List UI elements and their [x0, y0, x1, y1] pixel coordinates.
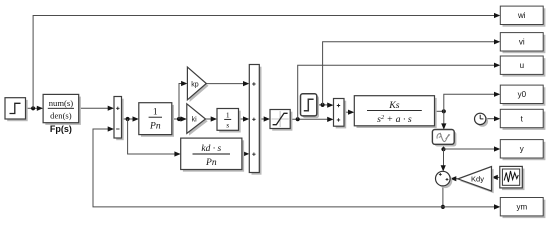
- outport u: [500, 56, 545, 77]
- wire stair source to sum S3 upper input: [317, 103, 334, 108]
- svg-text:1: 1: [153, 108, 158, 118]
- wire step to Fp(s): [26, 106, 44, 111]
- wire 1/Pn output to ki: [172, 116, 187, 121]
- wire to ym output: [443, 204, 500, 209]
- svg-text:s: s: [226, 120, 229, 129]
- svg-text:1: 1: [226, 111, 230, 120]
- sum circle: [436, 171, 453, 188]
- wire Fp(s) to sum S1: [79, 106, 114, 111]
- node after 1/Pn (branch to kp): [177, 117, 181, 121]
- outport y: [500, 140, 545, 161]
- gain kp: [187, 67, 208, 102]
- integrator 1/s: [217, 109, 241, 133]
- svg-text:Pn: Pn: [205, 158, 217, 168]
- outport wi: [500, 6, 545, 27]
- svg-text:wi: wi: [517, 11, 526, 20]
- svg-text:num(s): num(s): [49, 98, 73, 108]
- outport vi: [500, 33, 545, 54]
- derivative-like block (squiggle icon): [432, 130, 456, 147]
- sum S2: [249, 65, 261, 175]
- wire clock to t output: [486, 116, 501, 121]
- svg-text:Kdy: Kdy: [471, 175, 484, 184]
- node plant output: [442, 109, 446, 113]
- svg-text:ki: ki: [192, 117, 198, 124]
- wire to y output: [444, 146, 501, 151]
- wire ki to integrator 1/s: [206, 116, 218, 121]
- sum S1: [114, 97, 124, 141]
- wire sum S3 to plant: [344, 110, 354, 115]
- node after step (branch to wi): [31, 106, 35, 110]
- gain block 1/Pn: [139, 103, 174, 137]
- svg-text:Fp(s): Fp(s): [50, 124, 72, 134]
- svg-text:y0: y0: [518, 90, 527, 99]
- stair source block: [301, 94, 320, 118]
- svg-text:y: y: [520, 145, 524, 154]
- step source block: [5, 98, 28, 122]
- wire plant output: [435, 110, 444, 112]
- outport y0: [500, 85, 545, 106]
- outport ym: [500, 198, 545, 219]
- wire to u output: [298, 63, 501, 120]
- wire sum S2 to saturation: [259, 116, 270, 121]
- wire down into derivative block: [441, 111, 446, 129]
- noise source block: [500, 166, 525, 190]
- wire to wi output: [33, 13, 500, 108]
- svg-text:u: u: [520, 61, 524, 70]
- svg-text:kd · s: kd · s: [201, 144, 221, 154]
- gain Kdy (points left): [458, 167, 494, 194]
- wire saturation to sum S3 lower input: [290, 117, 333, 122]
- wire kd block to sum S2: [242, 151, 249, 156]
- saturation block: [270, 110, 292, 131]
- wire sum circle output down: [442, 186, 444, 207]
- wire to vi output: [323, 39, 501, 105]
- gain ki: [187, 104, 208, 136]
- wire feedback to sum S1 minus input: [93, 126, 443, 206]
- wire riser to kp: [179, 81, 187, 119]
- sum S3: [334, 99, 347, 129]
- wire branch down to kd block: [128, 119, 181, 157]
- outport t: [500, 109, 545, 130]
- node after stair source (branch to vi): [321, 103, 325, 107]
- wire derivative block output: [443, 144, 445, 149]
- transfer fcn Fp(s): [43, 94, 81, 124]
- plant transfer fcn Ks/(s^2+a.s): [354, 96, 436, 128]
- wire kp to sum S2: [206, 81, 249, 86]
- clock block: [475, 113, 489, 127]
- svg-text:den(s): den(s): [50, 111, 72, 121]
- svg-text:Ks: Ks: [388, 100, 400, 111]
- svg-text:Pn: Pn: [149, 122, 161, 132]
- svg-text:vi: vi: [519, 38, 525, 47]
- wire noise to Kdy gain: [492, 175, 500, 180]
- wire to y0 output: [444, 92, 501, 112]
- node after S1 (branch to kd path): [126, 117, 130, 121]
- derivative gain block kd.s/Pn: [181, 138, 244, 172]
- wire 1/s to sum S2: [239, 116, 250, 121]
- wire sum S1 output: [122, 116, 139, 121]
- node after saturation (branch to u): [296, 117, 300, 121]
- node after derivative (branch to y): [441, 147, 445, 151]
- wire down into sum circle: [441, 149, 446, 171]
- svg-text:kp: kp: [191, 81, 199, 88]
- wire Kdy to sum circle: [450, 176, 458, 181]
- node bottom branch: [441, 205, 445, 209]
- svg-text:ym: ym: [516, 203, 527, 212]
